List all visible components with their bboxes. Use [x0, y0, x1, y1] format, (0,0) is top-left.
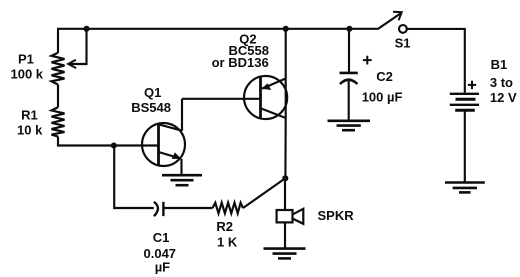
- wire: C2 to ground: [348, 80, 350, 121]
- wire: top V+ rail: [57, 28, 378, 30]
- svg-text:10 k: 10 k: [17, 123, 43, 138]
- wire: Q2 collector down to speaker node: [284, 118, 286, 178]
- P1 wiper arm: [68, 29, 86, 68]
- svg-text:100 k: 100 k: [11, 67, 44, 82]
- node: base junction (R1 / C1 / Q1 base): [111, 142, 117, 148]
- wire: speaker node to speaker: [284, 178, 286, 210]
- wire: V+ node to Q2 emitter riser: [285, 29, 287, 79]
- transistor Q2: [244, 76, 287, 119]
- speaker SPKR: [277, 209, 304, 224]
- resistor R2: [213, 203, 244, 214]
- wire: speaker to ground: [284, 222, 286, 248]
- capacitor C2: [340, 73, 358, 84]
- battery B1: [450, 94, 479, 111]
- ground (Q1 emitter): [162, 175, 202, 185]
- svg-text:B1: B1: [491, 57, 508, 72]
- node: speaker junction (R2 / Q2 collector / SPKR): [282, 175, 288, 181]
- wire: R2 to speaker node (diagonal): [243, 178, 285, 208]
- node: wiper junction on V+ rail: [83, 26, 89, 32]
- svg-text:C2: C2: [376, 69, 393, 84]
- svg-text:3 to: 3 to: [490, 75, 513, 90]
- ground (speaker): [264, 249, 306, 259]
- ground (B1): [445, 183, 485, 193]
- svg-text:100 µF: 100 µF: [362, 90, 403, 105]
- wire: C1 to R2: [163, 207, 212, 209]
- resistor R1: [52, 107, 65, 136]
- wire: base junction down and right to C1: [114, 146, 154, 209]
- plus sign at B1: [468, 81, 476, 89]
- wire: Q1 emitter to ground: [180, 159, 182, 175]
- wire: Q1 collector riser: [181, 99, 183, 131]
- svg-text:BS548: BS548: [131, 100, 171, 115]
- capacitor C1: [154, 202, 164, 216]
- ground (C2): [328, 121, 371, 130]
- wire: Q1 collector to Q2 base: [182, 98, 261, 100]
- svg-text:R1: R1: [21, 107, 38, 122]
- svg-text:12 V: 12 V: [490, 90, 517, 105]
- svg-text:µF: µF: [155, 259, 170, 274]
- svg-text:C1: C1: [153, 230, 170, 245]
- svg-text:S1: S1: [395, 36, 411, 51]
- wire: S1 to B1 positive terminal: [407, 29, 465, 93]
- svg-text:P1: P1: [18, 51, 34, 66]
- plus sign at C2: [363, 56, 372, 65]
- svg-text:SPKR: SPKR: [318, 208, 355, 223]
- wire: P1 to R1: [57, 85, 59, 108]
- potentiometer P1: [52, 53, 65, 85]
- svg-text:R2: R2: [216, 219, 233, 234]
- node: C2 junction on V+ rail: [346, 26, 352, 32]
- svg-text:or BD136: or BD136: [212, 55, 269, 70]
- wire: R1 bottom to Q1 base: [58, 137, 159, 146]
- wire: left drop from rail to P1: [57, 29, 59, 53]
- svg-text:Q1: Q1: [144, 85, 161, 100]
- wire: rail node down to C2: [348, 29, 350, 72]
- node: Q2 emitter on V+ rail: [283, 26, 289, 32]
- transistor Q1: [142, 123, 185, 166]
- svg-text:1 K: 1 K: [217, 234, 238, 249]
- switch S1: [378, 12, 407, 33]
- wire: B1 negative to ground: [464, 112, 466, 183]
